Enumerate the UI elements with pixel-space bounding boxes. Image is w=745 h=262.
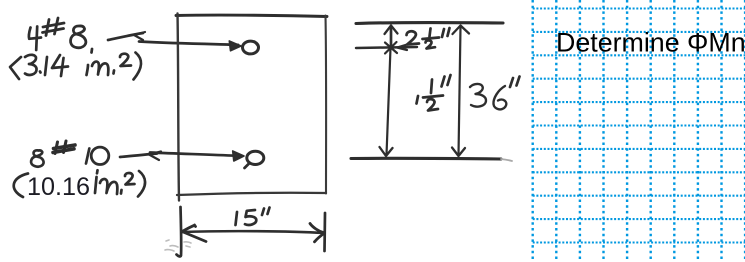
label 15" : 1 — [236, 212, 238, 225]
label (3.14 in.2) : paren ( — [10, 57, 21, 79]
section bottom line — [351, 157, 501, 161]
decimal point — [39, 72, 42, 73]
label 1.5" : tick 1 — [417, 96, 419, 104]
label 15" : quote — [262, 208, 270, 216]
in (handwritten) — [87, 65, 89, 75]
faint bottom-line tail — [501, 159, 512, 161]
label 15" : 5 — [245, 210, 256, 225]
label 1.5" : half fraction — [431, 80, 432, 94]
label 4#8 : digit 8 — [71, 26, 86, 48]
label 4#8 : hash # — [43, 18, 65, 36]
in (handwritten) — [95, 177, 97, 193]
period — [120, 190, 123, 194]
beam rectangle left edge — [178, 14, 180, 201]
dim 2.5 up arrowhead — [385, 26, 398, 35]
dim 15: right arrowhead — [310, 224, 325, 242]
label 2.5" : quote — [442, 28, 450, 37]
svg-text:10.16: 10.16 — [27, 173, 90, 201]
label 8#10 : digit 1 — [86, 149, 89, 164]
section top line — [356, 23, 503, 24]
section top-bar line — [356, 47, 417, 48]
bottom rebar circle — [247, 151, 264, 164]
leader line from 8#10 — [120, 154, 157, 158]
period — [112, 71, 115, 74]
arrow to bottom bars — [150, 153, 236, 156]
label 2.5" : 2 — [407, 31, 420, 44]
graph paper grid — [533, 0, 745, 262]
arrow to top bar — [139, 42, 238, 45]
beam rectangle right edge — [324, 16, 327, 194]
1 — [45, 57, 47, 75]
superscript 2 — [120, 54, 131, 66]
label (10.16 in.2) : paren ( — [14, 174, 28, 198]
leader hook (bottom) — [149, 152, 161, 161]
label 8#10 : digit 8 — [31, 150, 44, 166]
leader line from 4#8 — [108, 33, 143, 40]
beam rectangle top edge — [176, 15, 327, 16]
dim 36 down arrowhead — [452, 148, 465, 157]
dim 36 vertical line — [459, 27, 461, 155]
svg-text:Determine ΦMn: Determine ΦMn — [556, 28, 745, 58]
dim 15: dimension line — [183, 231, 325, 233]
label 8#10 : digit 0 — [91, 147, 109, 164]
label 8#10 : hash # — [53, 141, 75, 154]
beam rectangle bottom edge — [177, 193, 326, 195]
arrowhead (top) — [229, 41, 241, 51]
superscript 2 — [125, 173, 135, 184]
paren ) — [134, 53, 142, 80]
label 36" : quote — [510, 77, 520, 88]
pencil smudge — [165, 240, 191, 251]
dim 36 up arrowhead — [453, 26, 470, 35]
paren ) — [138, 171, 145, 197]
dim 15: right extension line — [323, 213, 326, 251]
left-pointing arrowhead on bar line — [397, 45, 407, 51]
leader hook (top) — [134, 32, 145, 40]
circle tail — [245, 163, 250, 168]
arrowhead (bottom) — [233, 151, 244, 161]
dim 2.5 vertical line — [390, 27, 393, 46]
dim d down arrowhead — [380, 147, 393, 156]
4 — [52, 55, 68, 68]
top rebar circle — [243, 41, 259, 54]
label 36" : 3 — [470, 84, 486, 107]
dim d vertical line lower — [387, 48, 391, 155]
label 36" : 6 — [493, 86, 506, 109]
label 4#8 : digit 4 — [29, 27, 41, 51]
X mark at 2.5 offset — [385, 42, 397, 54]
3 — [25, 55, 37, 75]
dim 15: left extension line — [177, 207, 182, 256]
dim 15: left arrowhead — [182, 225, 206, 242]
label 2.5" : half fraction — [430, 29, 431, 37]
label 1.5" : quote — [442, 75, 451, 87]
